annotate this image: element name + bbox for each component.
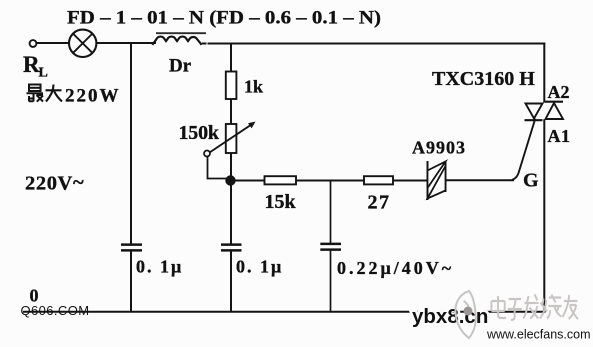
svg-text:0.22μ/40V~: 0.22μ/40V~ — [337, 258, 454, 278]
svg-text:220V~: 220V~ — [25, 172, 84, 195]
svg-text:150k: 150k — [179, 122, 220, 144]
svg-text:L: L — [39, 66, 48, 81]
svg-text:15k: 15k — [265, 191, 297, 213]
svg-text:A9903: A9903 — [412, 138, 466, 158]
svg-text:0. 1μ: 0. 1μ — [236, 257, 283, 277]
svg-text:A1: A1 — [548, 126, 571, 146]
svg-text:1k: 1k — [244, 77, 263, 97]
svg-text:www.elecfans.com: www.elecfans.com — [486, 328, 591, 342]
svg-text:G: G — [523, 170, 539, 192]
svg-text:FD – 1 – 01 – N (FD – 0.6 – 0.: FD – 1 – 01 – N (FD – 0.6 – 0.1 – N) — [67, 8, 381, 29]
svg-text:R: R — [23, 52, 40, 77]
svg-text:A2: A2 — [548, 82, 570, 102]
svg-text:TXC3160 H: TXC3160 H — [432, 68, 535, 90]
svg-text:Q606.COM: Q606.COM — [21, 303, 90, 318]
svg-text:220W: 220W — [65, 86, 121, 107]
svg-text:Dr: Dr — [169, 56, 192, 77]
svg-text:ybx8.cn: ybx8.cn — [412, 305, 488, 328]
svg-text:27: 27 — [368, 192, 391, 214]
svg-text:0. 1μ: 0. 1μ — [136, 257, 183, 277]
